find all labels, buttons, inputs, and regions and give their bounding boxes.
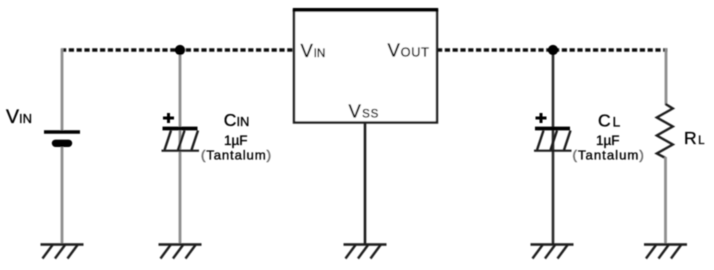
battery VIN: bottom (short thick) plate xyxy=(56,140,69,147)
node: junction of input rail and CIN xyxy=(175,45,185,55)
regulator U1 box xyxy=(294,11,437,123)
regulator U1 thick top edge xyxy=(293,8,438,12)
plus sign xyxy=(536,117,547,120)
ground (below battery) xyxy=(41,245,84,259)
capacitor CL (polarized tantalum symbol) xyxy=(534,113,572,151)
wire: RL down to ground xyxy=(664,157,667,244)
svg-text:RL: RL xyxy=(684,128,705,148)
resistor RL (zigzag) xyxy=(657,104,673,158)
thick top plate xyxy=(535,127,570,131)
capacitor CIN (polarized tantalum symbol) xyxy=(162,113,200,151)
svg-text:1µF: 1µF xyxy=(596,133,620,148)
thick top plate xyxy=(163,127,198,131)
wire: main input rail (dashed, VIN source to regulator VIN pin) xyxy=(61,48,294,51)
hatched lower plate: three slashes xyxy=(165,131,172,151)
wire: right vertical from rail corner down to RL xyxy=(665,49,668,106)
node: junction of output rail and CL xyxy=(548,45,558,55)
ground (below VSS) xyxy=(344,245,387,259)
svg-text:VIN: VIN xyxy=(6,106,32,128)
svg-text:CL: CL xyxy=(598,111,620,131)
svg-text:CIN: CIN xyxy=(224,110,250,130)
ground (below RL) xyxy=(644,245,687,259)
ground (below CIN) xyxy=(159,245,202,259)
svg-text:(Tantalum): (Tantalum) xyxy=(573,148,645,163)
ground (below CL) xyxy=(531,245,574,259)
wire: CL branch from rail down to ground xyxy=(552,50,555,245)
wire: VSS pin down to ground xyxy=(364,123,367,244)
svg-text:(Tantalum): (Tantalum) xyxy=(201,148,272,163)
wire: CIN branch from rail down to ground xyxy=(179,50,182,245)
wire: battery - terminal down to ground xyxy=(61,147,64,244)
thin bottom line xyxy=(162,150,200,152)
battery VIN: top (long thin) plate xyxy=(44,130,80,134)
thin bottom line xyxy=(534,150,572,152)
hatched lower plate: three slashes xyxy=(537,131,544,151)
wire: left vertical from rail down to battery + terminal xyxy=(61,49,64,132)
wire: main output rail (dashed, regulator VOUT pin to RL) xyxy=(437,48,668,51)
svg-text:1µF: 1µF xyxy=(224,133,248,148)
plus sign xyxy=(163,117,174,120)
